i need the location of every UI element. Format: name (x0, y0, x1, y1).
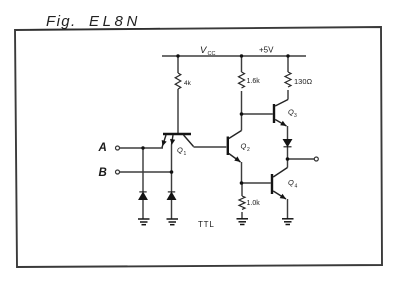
svg-text:1.6k: 1.6k (247, 78, 261, 85)
svg-text:CC: CC (208, 51, 216, 57)
svg-text:3: 3 (294, 113, 297, 119)
svg-text:Q: Q (241, 142, 247, 151)
svg-text:EL8N: EL8N (89, 13, 141, 30)
svg-text:A: A (98, 142, 107, 154)
svg-text:Fig.: Fig. (46, 13, 77, 30)
svg-text:Q: Q (177, 146, 183, 155)
svg-text:TTL: TTL (198, 220, 215, 229)
svg-text:Q: Q (288, 178, 294, 187)
svg-text:4: 4 (295, 184, 298, 190)
svg-text:1.0k: 1.0k (247, 200, 261, 207)
svg-text:1: 1 (184, 151, 187, 157)
svg-text:2: 2 (247, 147, 250, 153)
svg-text:B: B (99, 167, 107, 179)
svg-text:4k: 4k (184, 80, 192, 87)
svg-text:130Ω: 130Ω (294, 77, 313, 86)
svg-text:+5V: +5V (259, 46, 274, 55)
